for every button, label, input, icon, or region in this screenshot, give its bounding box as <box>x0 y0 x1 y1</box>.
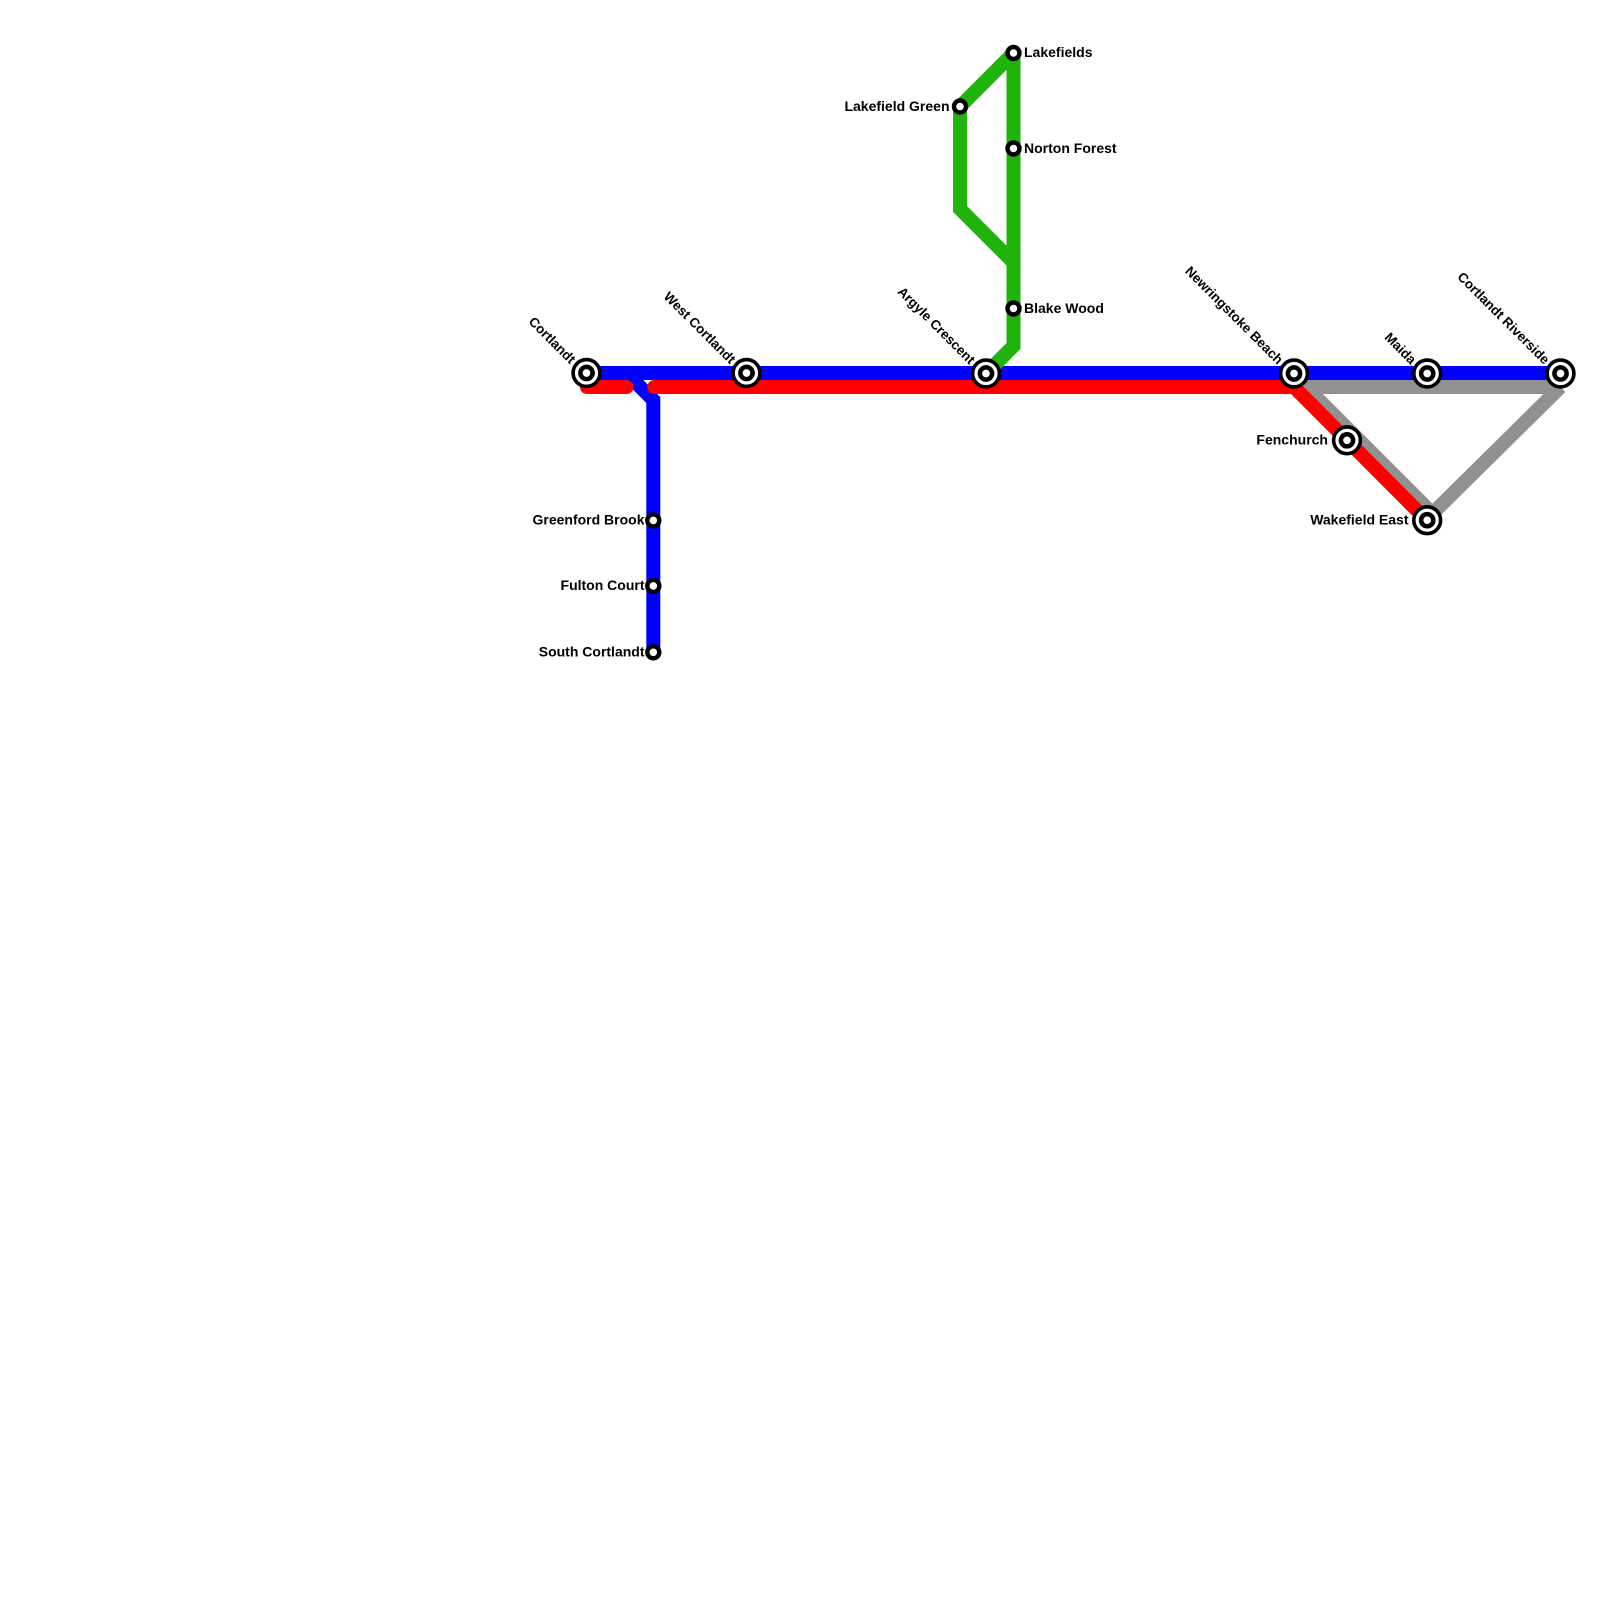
green line loop via Lakefield Green <box>960 53 1014 263</box>
svg-text:Greenford Brook: Greenford Brook <box>532 512 644 528</box>
svg-text:Blake Wood: Blake Wood <box>1024 300 1104 316</box>
svg-text:Lakefield Green: Lakefield Green <box>844 98 949 114</box>
station Cortlandt (interchange) <box>573 360 600 387</box>
svg-text:Fulton Court: Fulton Court <box>561 577 645 593</box>
red line west segment <box>587 380 627 394</box>
gray line loop via Wakefield East <box>1306 387 1561 514</box>
green line main via Norton Forest <box>986 53 1014 374</box>
station Greenford Brook <box>647 514 659 526</box>
station Norton Forest <box>1008 143 1020 155</box>
gray line direct Newringstoke Beach to Cortlandt Riverside <box>1294 380 1561 394</box>
station Lakefield Green <box>954 101 966 113</box>
station Maida (interchange) <box>1414 360 1441 387</box>
station Fulton Court <box>647 580 659 592</box>
station South Cortlandt <box>647 646 659 658</box>
svg-text:Norton Forest: Norton Forest <box>1024 140 1117 156</box>
station Lakefields <box>1008 47 1020 59</box>
svg-text:Wakefield East: Wakefield East <box>1310 512 1409 528</box>
station Newringstoke Beach (interchange) <box>1281 360 1308 387</box>
station Wakefield East (interchange) <box>1414 507 1441 534</box>
blue line main horizontal <box>587 366 1561 380</box>
red line main segment to Wakefield East <box>654 387 1427 521</box>
svg-text:South Cortlandt: South Cortlandt <box>539 644 645 660</box>
blue branch to South Cortlandt <box>626 373 653 652</box>
station Blake Wood <box>1008 303 1020 315</box>
station West Cortlandt (interchange) <box>733 360 760 387</box>
station Argyle Crescent (interchange) <box>973 360 1000 387</box>
station Cortlandt Riverside (interchange) <box>1547 360 1574 387</box>
svg-text:Fenchurch: Fenchurch <box>1256 432 1328 448</box>
station Fenchurch (interchange) <box>1334 427 1361 454</box>
svg-text:Lakefields: Lakefields <box>1024 44 1093 60</box>
